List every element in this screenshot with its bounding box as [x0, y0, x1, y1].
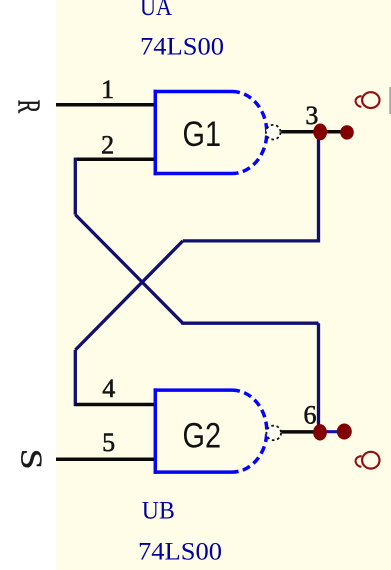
net label Qbar (rotated, maroon) — [356, 452, 380, 469]
partial glyph tick at right edge — [389, 87, 391, 114]
svg-text:1: 1 — [101, 75, 114, 104]
svg-text:S: S — [14, 449, 48, 470]
wire: right vertical down to output 6 junction — [317, 323, 320, 432]
wire G1 output (pin 3) to Q node — [281, 130, 353, 134]
junction dot right of Qbar node — [337, 424, 352, 440]
nand gate G2 (UB 74LS00) body — [154, 388, 267, 473]
svg-text:G1: G1 — [183, 115, 222, 154]
svg-text:74LS00: 74LS00 — [140, 34, 224, 61]
wire S to G2 pin 5 — [56, 457, 156, 461]
wire Q feedback to G2 pin 4 (horizontal) — [75, 403, 156, 407]
svg-text:4: 4 — [102, 374, 115, 403]
svg-text:74LS00: 74LS00 — [138, 539, 222, 566]
net label Q (rotated, maroon) — [356, 92, 380, 108]
svg-text:2: 2 — [101, 130, 114, 159]
svg-text:UB: UB — [142, 497, 175, 524]
svg-text:6: 6 — [304, 401, 317, 430]
wire R to G1 pin 1 — [56, 103, 156, 107]
wire: diagonal pin2-net down-right to lower horizontal — [75, 215, 182, 323]
nand gate G1 (UA 74LS00) body — [154, 90, 267, 175]
wire G2 output (pin 6) to Qbar node — [282, 430, 321, 434]
G1 output bubble (pin 3) — [266, 125, 281, 140]
G2 output bubble (pin 6) — [266, 426, 281, 441]
wire: vertical from pin2 corner down — [74, 158, 77, 215]
wire: vertical down to pin 4 — [74, 350, 77, 406]
wire: upper horizontal of Q net — [183, 239, 319, 242]
svg-text:UA: UA — [140, 0, 172, 21]
wire: lower horizontal of Qbar net — [181, 322, 318, 325]
junction dot right of Q node — [340, 125, 354, 139]
wire: right vertical from output 3 junction down — [317, 132, 320, 243]
wire Qbar feedback to G1 pin 2 (horizontal) — [75, 157, 156, 161]
svg-text:R: R — [11, 100, 47, 114]
junction dot at Qbar node (pin 6) — [313, 424, 327, 440]
svg-text:5: 5 — [102, 428, 115, 457]
junction dot at Q node (pin 3) — [313, 123, 327, 140]
wire: diagonal Q net down-left — [75, 241, 183, 350]
short blue wire between Qbar junction dots — [320, 430, 344, 433]
svg-text:G2: G2 — [183, 417, 222, 456]
